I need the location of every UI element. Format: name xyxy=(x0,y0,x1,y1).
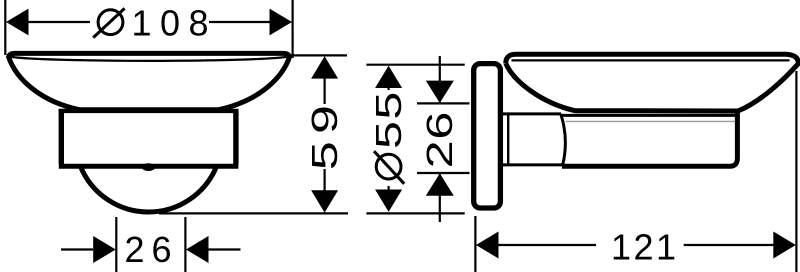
arrow up xyxy=(375,66,402,88)
ext line top xyxy=(417,102,470,104)
svg-text:55: 55 xyxy=(369,90,409,149)
arrow left xyxy=(476,232,499,259)
wall plate xyxy=(474,64,501,208)
arrow right xyxy=(773,232,796,259)
dish rim lower thin arc xyxy=(9,57,289,61)
arm bottom and right edge xyxy=(562,111,737,166)
arrow down xyxy=(311,190,338,212)
dim line xyxy=(439,56,441,103)
arrow up xyxy=(311,56,338,78)
ext line bottom xyxy=(417,172,470,174)
dim leader left xyxy=(28,21,91,23)
arrow down xyxy=(375,190,402,212)
stem left edge xyxy=(59,111,64,164)
ext line right xyxy=(795,71,797,272)
dim leader left xyxy=(498,244,597,246)
stem bottom edge xyxy=(59,164,239,169)
dim line segments xyxy=(388,88,390,91)
svg-text:26: 26 xyxy=(125,229,179,270)
svg-text:121: 121 xyxy=(611,227,679,268)
dim leader left xyxy=(61,248,93,250)
arrow up xyxy=(426,173,454,195)
arrow pointing right xyxy=(93,236,116,263)
ext line bottom xyxy=(159,212,348,214)
stem right edge xyxy=(233,111,238,164)
bowl outline (side) xyxy=(506,54,799,111)
dim line segments xyxy=(324,78,326,104)
svg-text:26: 26 xyxy=(420,111,460,168)
ext line top xyxy=(366,64,464,66)
ext line left xyxy=(115,217,117,272)
ext line right xyxy=(292,0,294,58)
dish rim top line xyxy=(9,53,290,58)
arrow left xyxy=(6,9,29,36)
collar top edge xyxy=(501,112,562,115)
arm faint inner line xyxy=(566,120,735,122)
svg-text:108: 108 xyxy=(132,2,218,43)
ext line bottom xyxy=(366,212,464,214)
dim leader right xyxy=(209,21,271,23)
arrow down xyxy=(426,81,454,103)
ext line top xyxy=(288,54,347,56)
bowl rim inner thin line xyxy=(512,59,790,61)
collar bottom sliver xyxy=(142,163,156,171)
collar bottom edge xyxy=(501,163,563,166)
collar end arc xyxy=(561,114,566,165)
diameter symbol xyxy=(93,8,124,37)
dim leader right xyxy=(684,244,774,246)
stem top / dish flat base line xyxy=(59,109,239,113)
collar inner vertical xyxy=(507,114,509,164)
ext line left xyxy=(474,216,476,272)
ext line left xyxy=(4,0,6,55)
ext line right xyxy=(184,217,186,272)
arm top thin line xyxy=(561,114,737,117)
diameter symbol (rotated) xyxy=(374,151,404,184)
dim leader right xyxy=(209,248,241,250)
arrow right xyxy=(270,9,293,36)
arrow pointing left xyxy=(186,236,209,263)
dish bowl body xyxy=(8,56,290,110)
svg-text:59: 59 xyxy=(304,98,345,171)
wall plate dome (lower half circle) xyxy=(81,166,217,212)
